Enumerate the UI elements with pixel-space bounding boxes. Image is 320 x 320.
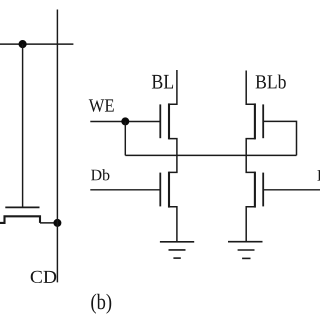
transistor Q2 gate bar (262, 104, 264, 138)
wire Q4 source to ground (246, 207, 255, 242)
transistor Q1 channel (168, 103, 170, 139)
transistor Q1 gate bar (159, 104, 161, 138)
node WE junction dot (121, 117, 129, 125)
label BLb (256, 75, 286, 89)
transistor Q2 channel (254, 103, 256, 139)
label BL (152, 75, 173, 89)
wire BL vertical (169, 70, 177, 104)
transistor Q-left gate bar (5, 206, 39, 208)
transistor Q3 channel (168, 172, 170, 208)
transistor Q4 gate bar (262, 173, 264, 207)
label CD (31, 271, 57, 283)
transistor Q3 gate bar (159, 173, 161, 207)
wire Q4 gate lead to edge (263, 189, 320, 191)
wire Db gate lead (90, 189, 160, 191)
transistor Q-left channel (0, 216, 40, 223)
wire BLb vertical (246, 71, 255, 105)
label Db (91, 169, 109, 180)
wire Q3 source to ground (169, 207, 177, 242)
transistor Q4 channel (254, 172, 256, 208)
wire WE gate lead (90, 121, 160, 123)
wire Q2 source to Q4 drain (246, 139, 255, 173)
ground left (160, 242, 194, 258)
wire CD vertical line (56, 10, 58, 283)
wire cross-couple rail (125, 154, 296, 156)
label Db right clipped (317, 170, 320, 181)
wire gate lead vertical left (22, 44, 24, 207)
wire from Q-left drain to node (40, 222, 57, 224)
node junction dot CD line (53, 219, 61, 227)
wire Q1 source to Q3 drain (169, 139, 177, 173)
node junction dot top-left (19, 40, 27, 48)
wire top-left horizontal (0, 43, 73, 45)
label WE (89, 99, 114, 112)
ground right (228, 242, 263, 259)
wire Q2 gate feedback loop (263, 121, 296, 155)
wire cross-couple drop (124, 122, 126, 156)
label (b) (91, 294, 111, 314)
